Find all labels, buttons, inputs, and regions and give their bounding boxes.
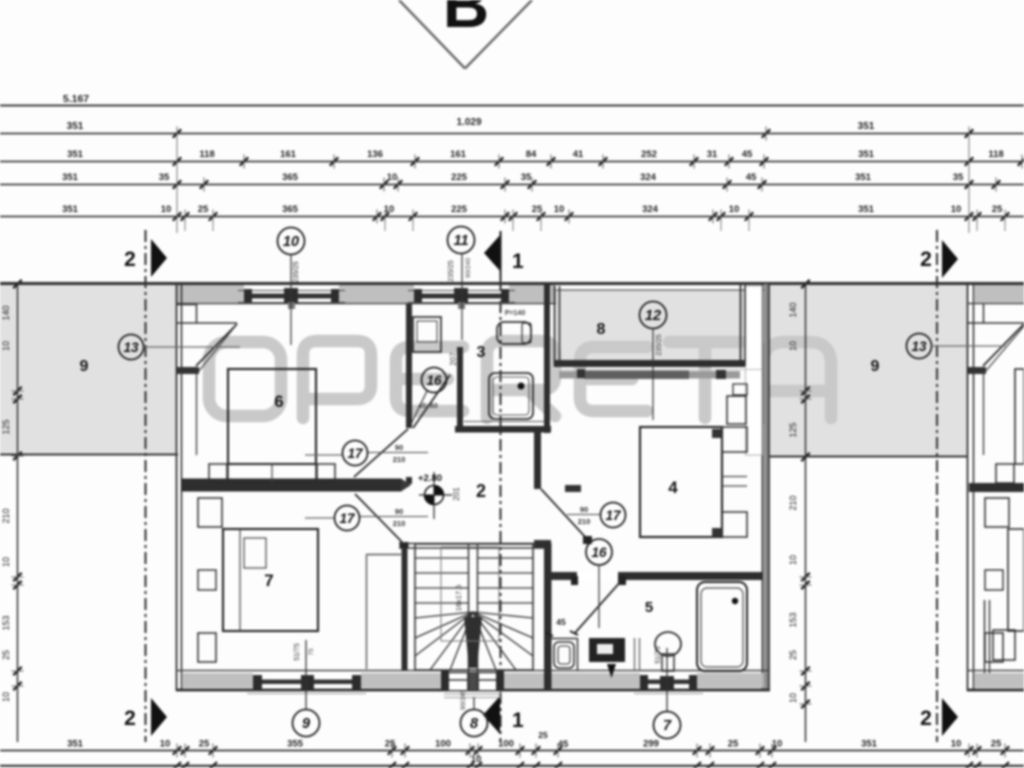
section marker 2 top-left — [124, 239, 167, 277]
wall room6/bathroom — [406, 304, 412, 484]
svg-text:7: 7 — [264, 571, 273, 590]
neighbour terrace door leaf — [983, 324, 1024, 372]
wall rooms 6/7 — [182, 479, 411, 492]
svg-text:1: 1 — [512, 250, 524, 273]
svg-text:351: 351 — [861, 739, 878, 750]
svg-text:351: 351 — [858, 204, 875, 215]
door room 7 leaf — [355, 494, 402, 542]
bathtub room 5 — [697, 582, 747, 671]
svg-text:10: 10 — [788, 341, 798, 351]
room label 9 right — [871, 358, 880, 375]
svg-text:10: 10 — [554, 204, 565, 215]
staircase — [415, 544, 533, 691]
svg-text:45: 45 — [746, 172, 757, 183]
svg-text:12: 12 — [645, 308, 661, 324]
svg-text:25: 25 — [385, 739, 396, 750]
svg-text:140: 140 — [1, 305, 11, 320]
bath width dim 207 — [449, 352, 458, 366]
facade line top — [0, 282, 1024, 285]
door room 6 leaf — [354, 429, 408, 477]
room label 9 left — [80, 358, 89, 375]
section marker 2 top-right — [920, 240, 958, 278]
svg-text:100: 100 — [435, 739, 451, 750]
svg-text:8: 8 — [470, 716, 479, 732]
svg-text:10: 10 — [772, 739, 783, 750]
svg-text:351: 351 — [858, 121, 875, 132]
neighbour lower walls — [967, 600, 1024, 690]
svg-text:9: 9 — [871, 358, 880, 375]
right outer wall — [763, 284, 770, 691]
window bathroom top — [408, 288, 515, 309]
svg-text:35: 35 — [521, 172, 532, 183]
door size 7 — [360, 507, 428, 528]
svg-text:2: 2 — [476, 481, 486, 501]
svg-text:252: 252 — [641, 149, 657, 160]
dimension line L5 detail widths — [0, 204, 1024, 224]
svg-text:10: 10 — [729, 204, 740, 215]
closet room 7 — [367, 554, 402, 669]
svg-text:+2.80: +2.80 — [418, 473, 442, 484]
cabinets room 7 — [198, 498, 222, 662]
svg-text:90/245: 90/245 — [460, 690, 467, 710]
entrance vestibule shading — [467, 672, 479, 690]
bed room 7 — [223, 529, 318, 631]
svg-text:355: 355 — [287, 739, 304, 750]
svg-text:25: 25 — [788, 650, 798, 660]
svg-text:8: 8 — [597, 321, 606, 338]
pedestal washbasin room 5 — [655, 632, 681, 671]
section line 2-2 left — [144, 230, 146, 742]
label circle 7 — [654, 646, 681, 738]
svg-text:6: 6 — [274, 392, 283, 411]
svg-text:17: 17 — [347, 446, 364, 461]
svg-text:351: 351 — [858, 149, 875, 160]
svg-text:207: 207 — [449, 352, 458, 366]
bottom wall masonry — [176, 671, 770, 691]
svg-text:3: 3 — [477, 344, 486, 361]
svg-text:10: 10 — [161, 204, 172, 215]
room label 8 — [597, 321, 606, 338]
svg-text:153: 153 — [788, 612, 798, 627]
svg-text:2: 2 — [124, 248, 136, 271]
svg-text:225: 225 — [451, 172, 468, 183]
wall hall left lower — [400, 542, 409, 670]
svg-text:45: 45 — [742, 149, 753, 160]
terrace 8 south wall — [554, 360, 745, 367]
svg-text:17: 17 — [605, 508, 622, 523]
WC niche walls — [551, 638, 578, 671]
neighbour wall rooms 6/7 — [969, 483, 1024, 492]
dimension chain left vertical — [1, 280, 24, 742]
dimension line L1 total 5.167 — [0, 93, 1024, 106]
label circle 12 — [640, 302, 667, 421]
svg-text:125: 125 — [788, 422, 798, 437]
room label 3 — [477, 344, 486, 361]
window room 6 top — [238, 288, 345, 309]
svg-text:25: 25 — [992, 204, 1003, 215]
svg-text:17: 17 — [339, 511, 356, 526]
shower room 3 — [489, 373, 533, 419]
terrace 9 right (covered terrace floor) — [770, 285, 967, 457]
neighbour furniture — [985, 369, 1024, 662]
toilet room 3 — [497, 322, 531, 344]
svg-text:5.167: 5.167 — [63, 93, 89, 105]
wall rooms 4/5 — [544, 572, 763, 580]
svg-text:161: 161 — [450, 149, 467, 160]
stairwell north wall — [399, 544, 544, 549]
svg-text:2: 2 — [920, 248, 932, 271]
room label 6 — [274, 392, 283, 411]
label circle 13 left — [119, 335, 241, 360]
svg-text:125: 125 — [1, 419, 11, 434]
svg-text:11: 11 — [453, 233, 468, 249]
svg-text:118: 118 — [988, 149, 1003, 160]
svg-text:9: 9 — [80, 358, 89, 375]
svg-text:210: 210 — [393, 519, 406, 528]
svg-text:P=140: P=140 — [505, 310, 526, 317]
hall width dim 201 — [452, 487, 461, 501]
detail tag B diamond — [399, 0, 532, 69]
label circle 17 door7 — [305, 506, 360, 531]
svg-text:351: 351 — [62, 172, 79, 183]
wall bathroom/terrace8 — [544, 284, 550, 433]
svg-text:35: 35 — [159, 172, 170, 183]
label circle 13 right — [907, 334, 1006, 359]
svg-text:25: 25 — [728, 739, 739, 750]
svg-text:351: 351 — [67, 149, 84, 160]
svg-text:351: 351 — [855, 172, 872, 183]
section line 2-2 right — [936, 230, 938, 742]
svg-text:7: 7 — [663, 718, 672, 734]
svg-text:10: 10 — [1, 341, 11, 351]
door room 4 leaf — [541, 485, 592, 544]
neighbour unit right walls — [967, 284, 1024, 691]
door room 5 leaf — [574, 580, 622, 634]
label circle 17 door4 — [601, 503, 626, 528]
svg-text:161: 161 — [280, 149, 297, 160]
svg-text:324: 324 — [640, 172, 657, 183]
room label 7 — [264, 571, 273, 590]
svg-text:2: 2 — [920, 707, 932, 730]
level mark +2.80 — [418, 472, 452, 519]
svg-text:235/25: 235/25 — [656, 334, 663, 356]
svg-text:90: 90 — [395, 507, 403, 516]
dimension line B1 bottom widths — [0, 730, 1024, 765]
svg-text:324: 324 — [642, 204, 659, 215]
section marker 2 bottom-left — [124, 698, 167, 736]
svg-text:25: 25 — [1, 650, 11, 660]
svg-text:365: 365 — [282, 172, 299, 183]
washing machine — [413, 317, 441, 352]
svg-text:140: 140 — [788, 302, 798, 317]
svg-text:45: 45 — [558, 739, 569, 750]
svg-text:10: 10 — [387, 172, 398, 183]
dimension line B2 bottom edge — [0, 762, 1024, 768]
terrace 8 west wall — [555, 286, 560, 366]
terrace 9 left (covered terrace floor) — [0, 285, 176, 455]
svg-text:16: 16 — [426, 373, 442, 388]
door size 4 — [567, 505, 600, 526]
room label 5 — [645, 599, 653, 616]
svg-text:1: 1 — [512, 709, 524, 732]
svg-text:210: 210 — [1, 508, 11, 523]
door room 5 hinges — [571, 576, 626, 585]
svg-text:136: 136 — [367, 149, 383, 160]
label circle 16 hall — [586, 539, 612, 628]
stair label — [454, 585, 463, 612]
svg-text:90/240: 90/240 — [465, 258, 472, 278]
svg-text:45: 45 — [556, 617, 566, 627]
pillar between terrace 8 and 9 — [746, 286, 763, 455]
stairwell east wall — [544, 543, 552, 691]
svg-text:90: 90 — [395, 443, 403, 452]
svg-text:5: 5 — [645, 599, 653, 616]
dimension line L4 detail widths — [0, 172, 1024, 192]
top wall masonry — [176, 285, 556, 304]
svg-text:41: 41 — [573, 149, 584, 160]
entrance door — [441, 671, 504, 698]
detail tag letter B — [443, 0, 489, 41]
svg-text:10: 10 — [788, 555, 798, 565]
door swing arrow room 5 — [607, 664, 616, 678]
wall stub room 5 — [635, 638, 640, 671]
svg-text:35: 35 — [953, 172, 964, 183]
svg-text:90: 90 — [580, 505, 588, 514]
svg-text:4: 4 — [668, 478, 678, 497]
terrace door room 6 sill — [176, 367, 199, 374]
svg-text:351: 351 — [62, 204, 79, 215]
svg-text:75: 75 — [308, 648, 315, 656]
svg-text:16x17.6: 16x17.6 — [454, 585, 463, 612]
svg-text:10: 10 — [788, 693, 798, 703]
svg-text:B: B — [443, 0, 489, 41]
window room 7 bottom — [247, 675, 366, 694]
toilet area label P140 — [505, 310, 526, 317]
svg-text:25: 25 — [538, 730, 548, 740]
window room 5 bottom — [634, 675, 703, 694]
svg-text:10: 10 — [1, 557, 11, 567]
svg-text:351: 351 — [67, 739, 84, 750]
bathroom door leaf — [413, 375, 450, 428]
room label 4 — [668, 478, 678, 497]
svg-text:31: 31 — [707, 149, 718, 160]
dimension line L2 351/1.029/351 — [0, 117, 1024, 141]
left outer wall — [176, 284, 197, 691]
svg-text:51/75: 51/75 — [655, 646, 662, 664]
svg-text:25: 25 — [198, 204, 209, 215]
section marker 2 bottom-right — [920, 698, 958, 736]
svg-text:365: 365 — [282, 204, 299, 215]
wall hall/room 4 — [534, 430, 551, 548]
svg-text:225: 225 — [451, 204, 468, 215]
svg-text:2: 2 — [124, 707, 136, 730]
terrace door room 6 lintel — [176, 322, 237, 324]
svg-text:9: 9 — [302, 716, 310, 732]
label circle 17 door6 — [305, 441, 368, 466]
section marker 1 top — [484, 231, 524, 279]
terrace 8 east wall — [741, 283, 746, 366]
svg-text:153: 153 — [1, 615, 11, 630]
svg-text:10: 10 — [283, 234, 299, 250]
svg-text:25: 25 — [199, 739, 210, 750]
svg-text:13: 13 — [911, 339, 927, 354]
bed room 4 — [640, 427, 747, 537]
watermark letter O — [209, 341, 831, 418]
svg-text:201: 201 — [452, 487, 461, 501]
svg-text:299: 299 — [643, 739, 659, 750]
svg-text:10: 10 — [951, 739, 962, 750]
svg-text:235/25: 235/25 — [293, 261, 300, 283]
svg-text:51/75: 51/75 — [294, 643, 301, 661]
bed room 6 — [228, 369, 316, 482]
label circle 11 — [448, 227, 475, 341]
svg-text:10: 10 — [1, 692, 11, 702]
section marker 1 bottom — [483, 696, 524, 734]
svg-text:210: 210 — [578, 517, 591, 526]
label circle 16 bath — [411, 368, 447, 425]
toilet room 5 — [554, 642, 574, 668]
svg-text:84: 84 — [526, 149, 537, 160]
terrace door room 6 leaf — [196, 324, 237, 372]
section line 1-1 center — [499, 232, 501, 742]
svg-text:25: 25 — [991, 739, 1002, 750]
washbasin unit room 5 — [589, 638, 625, 662]
svg-text:16: 16 — [591, 545, 607, 560]
dim 45x60 — [418, 403, 438, 410]
svg-text:13: 13 — [123, 340, 139, 355]
wardrobe room 4 corner — [727, 384, 747, 424]
label circle 9 — [293, 640, 320, 737]
bathroom south wall — [455, 422, 551, 433]
dimension line L3 detail widths — [0, 149, 1024, 169]
svg-text:118: 118 — [199, 149, 214, 160]
svg-text:10: 10 — [160, 739, 171, 750]
svg-text:1.029: 1.029 — [456, 117, 481, 128]
svg-text:210: 210 — [393, 455, 406, 464]
door size 6 — [368, 443, 428, 464]
sliding door lintel room 4 — [559, 369, 762, 379]
label circle 10 — [278, 228, 305, 346]
svg-text:10: 10 — [951, 204, 962, 215]
terrace right bottom edge — [770, 456, 968, 458]
svg-text:235/25: 235/25 — [448, 260, 455, 282]
terrace 8 (loggia floor) — [556, 290, 747, 361]
dim 45 niche — [545, 617, 578, 636]
nightstands room 6 — [209, 464, 335, 483]
svg-text:351: 351 — [67, 121, 84, 132]
label circle 8 — [460, 690, 488, 737]
bathroom partition — [457, 347, 463, 426]
terrace 8 top inner line — [556, 289, 770, 291]
dimension chain right vertical — [788, 280, 812, 742]
svg-text:210: 210 — [788, 495, 798, 510]
room label 2 — [476, 481, 486, 501]
terrace left bottom edge — [0, 454, 178, 456]
dimension guide verticals — [177, 128, 1005, 233]
